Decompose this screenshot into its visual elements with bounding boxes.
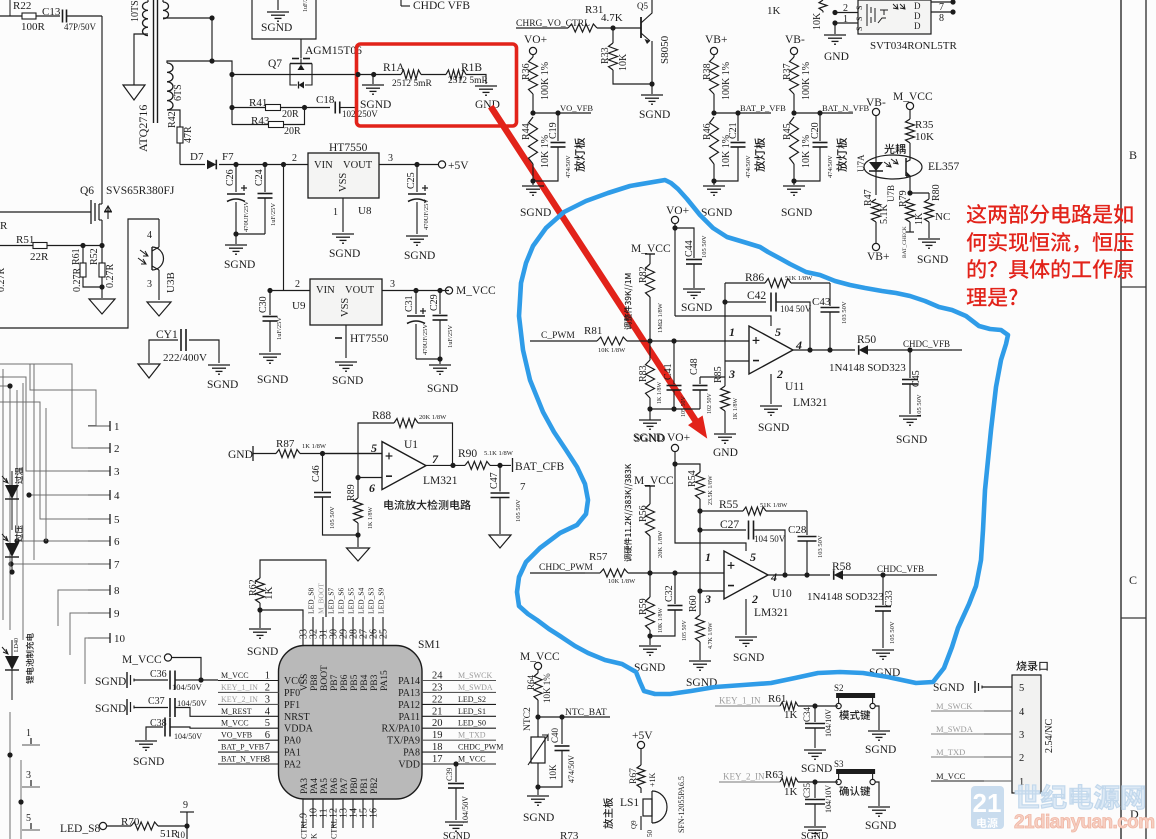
- svg-text:C41: C41: [663, 363, 674, 380]
- svg-text:C27: C27: [720, 519, 739, 531]
- svg-text:BAT_P_VFB: BAT_P_VFB: [740, 103, 786, 113]
- svg-text:7: 7: [432, 452, 439, 466]
- transformer T1 ATQ2716: [153, 0, 155, 123]
- svg-text:5.1K 1/8W: 5.1K 1/8W: [484, 450, 514, 457]
- svg-text:C40: C40: [550, 727, 560, 743]
- svg-text:100R: 100R: [21, 21, 46, 33]
- label guang ou: [884, 144, 894, 154]
- svg-text:6: 6: [369, 481, 375, 495]
- svg-text:6: 6: [265, 730, 270, 741]
- capacitor C40: [561, 717, 563, 744]
- svg-text:S: S: [855, 17, 864, 21]
- svg-text:LED_S9: LED_S9: [377, 588, 386, 615]
- svg-text:HT7550: HT7550: [329, 142, 368, 154]
- svg-text:10K 1/8W: 10K 1/8W: [598, 347, 626, 354]
- svg-text:SVT034RONL5TR: SVT034RONL5TR: [870, 40, 957, 52]
- svg-text:SGND: SGND: [639, 109, 670, 121]
- feedback R88 20K: [358, 423, 394, 478]
- resistor R67 1K: [640, 749, 642, 765]
- svg-text:U10: U10: [772, 588, 792, 600]
- svg-text:3: 3: [704, 592, 711, 606]
- node R41: [231, 75, 233, 125]
- svg-text:BAT_CHECK: BAT_CHECK: [902, 226, 908, 258]
- resistor R44 10K: [529, 117, 538, 164]
- svg-text:VDD: VDD: [398, 760, 420, 771]
- output wire U11: [793, 349, 855, 351]
- svg-text:S: S: [855, 27, 864, 31]
- resistor R36 100K: [532, 55, 534, 57]
- svg-text:105 50V: 105 50V: [329, 506, 336, 529]
- svg-text:PF0: PF0: [284, 688, 300, 699]
- svg-text:K: K: [310, 833, 319, 839]
- svg-text:NTC2: NTC2: [523, 707, 533, 731]
- svg-text:C42: C42: [747, 290, 766, 302]
- capacitor C29: [439, 291, 441, 315]
- mcu bottom pins: [302, 799, 304, 828]
- svg-text:PA1: PA1: [284, 748, 301, 759]
- svg-text:R57: R57: [589, 551, 608, 563]
- svg-text:U1: U1: [404, 439, 418, 451]
- svg-text:KEY_2_IN: KEY_2_IN: [221, 695, 258, 704]
- svg-text:105 50V: 105 50V: [682, 620, 688, 642]
- svg-text:2512 5mR: 2512 5mR: [448, 76, 489, 86]
- svg-text:CHDC VFB: CHDC VFB: [413, 0, 470, 12]
- svg-text:BAT_N_VFB: BAT_N_VFB: [221, 755, 265, 764]
- resistor R80 NC: [928, 193, 930, 199]
- svg-text:5: 5: [265, 718, 270, 729]
- svg-text:2: 2: [114, 443, 120, 455]
- capacitor C47: [499, 465, 501, 491]
- svg-text:SGND: SGND: [865, 744, 896, 756]
- svg-text:470UF/25V: 470UF/25V: [243, 201, 250, 232]
- wire VO+ U10: [675, 452, 746, 551]
- svg-text:R56: R56: [638, 505, 649, 522]
- svg-text:16: 16: [369, 808, 380, 818]
- resistor R38 100K: [713, 55, 715, 57]
- wire R62 to VSS pin: [260, 610, 303, 617]
- svg-text:105 50V: 105 50V: [515, 499, 522, 522]
- svg-text:47R: 47R: [183, 126, 194, 143]
- svg-text:23.5K 1/8W: 23.5K 1/8W: [708, 475, 714, 505]
- svg-text:U9: U9: [292, 300, 306, 312]
- svg-text:51K 1/8W: 51K 1/8W: [760, 502, 788, 509]
- winding 6TS: [167, 63, 173, 110]
- svg-text:R35: R35: [915, 119, 934, 131]
- svg-text:CY1: CY1: [156, 329, 178, 341]
- svg-text:LED_S8: LED_S8: [307, 588, 316, 615]
- svg-text:4: 4: [1019, 707, 1025, 718]
- svg-text:SGND: SGND: [360, 99, 391, 111]
- svg-text:RX/PA10: RX/PA10: [381, 724, 420, 735]
- svg-text:1K: 1K: [784, 709, 798, 721]
- capacitor C42: [725, 301, 766, 303]
- svg-text:VB-: VB-: [866, 97, 886, 109]
- svg-text:R60: R60: [688, 595, 699, 612]
- svg-text:VCC: VCC: [284, 676, 305, 687]
- svg-text:M_TXD: M_TXD: [936, 747, 965, 757]
- svg-text:LED_S4: LED_S4: [357, 588, 366, 615]
- svg-text:LM321: LM321: [793, 397, 828, 409]
- capacitor C48: [699, 377, 701, 384]
- mcu top pins: [302, 617, 304, 646]
- mcu SM1: [279, 646, 423, 800]
- svg-text:PB2: PB2: [370, 777, 380, 794]
- capacitor C19: [557, 113, 559, 141]
- terminal VB+ opto: [872, 243, 879, 250]
- svg-text:4: 4: [114, 490, 120, 502]
- pin2 ground U10: [745, 599, 747, 635]
- capacitor C34: [814, 706, 816, 722]
- capacitor C31: [415, 291, 417, 315]
- svg-text:BAT_N_VFB: BAT_N_VFB: [822, 103, 870, 113]
- resistor R59 10K: [649, 573, 651, 597]
- svg-text:105 50V: 105 50V: [889, 621, 896, 644]
- svg-text:20: 20: [432, 718, 443, 729]
- svg-text:LM321: LM321: [754, 607, 789, 619]
- svg-text:5.1K: 5.1K: [879, 204, 890, 225]
- svg-text:C36: C36: [150, 669, 167, 680]
- wire drain bus: [101, 16, 103, 200]
- svg-text:KEY_2_IN: KEY_2_IN: [723, 772, 765, 782]
- svg-text:D: D: [914, 1, 921, 11]
- svg-text:C21: C21: [728, 122, 739, 139]
- svg-text:VIN: VIN: [316, 285, 335, 296]
- svg-text:C25: C25: [406, 172, 417, 189]
- svg-text:R87: R87: [276, 438, 295, 450]
- svg-text:CHDC_VFB: CHDC_VFB: [903, 339, 950, 349]
- svg-text:SGND: SGND: [404, 250, 435, 262]
- label fang deng ban C20: [836, 161, 847, 172]
- svg-text:C26: C26: [225, 169, 236, 186]
- svg-text:SGND: SGND: [95, 703, 126, 715]
- net BAT_N_VFB: [794, 112, 853, 114]
- svg-text:20K 1/8W: 20K 1/8W: [419, 414, 447, 421]
- svg-text:B: B: [1129, 148, 1137, 162]
- svg-text:PA3: PA3: [300, 778, 310, 794]
- svg-text:M_VCC: M_VCC: [634, 475, 674, 487]
- svg-text:SGND: SGND: [781, 207, 812, 219]
- svg-text:3: 3: [114, 466, 120, 478]
- svg-text:104/10V: 104/10V: [824, 785, 833, 813]
- svg-text:17: 17: [432, 754, 443, 765]
- svg-text:R54: R54: [687, 470, 698, 487]
- svg-text:SGND: SGND: [733, 652, 764, 664]
- pins 2 1 SVT034: [835, 12, 858, 14]
- svg-text:VSS: VSS: [340, 298, 351, 317]
- ground R44: [522, 185, 544, 187]
- resistor R64 10K 1%: [537, 670, 539, 673]
- svg-text:R85: R85: [713, 366, 724, 383]
- svg-text:5: 5: [26, 813, 31, 824]
- capacitor C21: [737, 113, 739, 141]
- svg-text:3: 3: [26, 770, 31, 781]
- wire node: [211, 18, 213, 61]
- svg-text:10: 10: [176, 830, 186, 839]
- svg-text:SGND: SGND: [427, 383, 458, 395]
- svg-text:104 50V: 104 50V: [780, 304, 812, 314]
- svg-text:20R: 20R: [284, 126, 301, 137]
- svg-text:SGND: SGND: [681, 302, 712, 314]
- svg-text:R46: R46: [702, 123, 713, 140]
- svg-text:VO_VFB: VO_VFB: [221, 731, 252, 740]
- svg-text:M_VCC: M_VCC: [520, 651, 560, 663]
- ground GND SVT034: [834, 23, 836, 34]
- svg-text:LD40: LD40: [14, 638, 20, 652]
- svg-text:M_VCC: M_VCC: [221, 719, 249, 728]
- svg-text:KEY_1_IN: KEY_1_IN: [719, 696, 761, 706]
- svg-text:R79: R79: [898, 190, 909, 207]
- svg-text:4.7K: 4.7K: [601, 12, 623, 24]
- ground R45: [783, 185, 805, 187]
- svg-text:M_SWCK: M_SWCK: [936, 701, 973, 711]
- svg-text:R38: R38: [702, 63, 713, 80]
- svg-text:C44: C44: [684, 240, 695, 257]
- svg-text:SGND: SGND: [443, 831, 470, 839]
- svg-text:GND: GND: [824, 51, 849, 63]
- resistor R55 51K: [700, 510, 743, 512]
- svg-text:2: 2: [1019, 753, 1024, 764]
- capacitor C41: [673, 341, 675, 384]
- svg-text:22: 22: [432, 694, 443, 705]
- svg-text:S8050: S8050: [659, 35, 671, 64]
- connector shao lu kou: [1016, 661, 1026, 671]
- SGND block top: [252, 0, 316, 39]
- svg-text:R86: R86: [745, 272, 764, 284]
- svg-text:3: 3: [388, 153, 393, 164]
- svg-text:7: 7: [114, 559, 120, 571]
- capacitor C32: [674, 573, 676, 604]
- ic SVT034RONL5TR: [858, 0, 931, 34]
- svg-text:VB+: VB+: [867, 251, 889, 263]
- svg-text:C43: C43: [812, 296, 831, 308]
- svg-text:PB8: PB8: [310, 674, 320, 691]
- svg-text:10K 1/8W: 10K 1/8W: [658, 608, 664, 634]
- svg-text:SVS65R380FJ: SVS65R380FJ: [106, 185, 175, 197]
- svg-text:KEY_1_IN: KEY_1_IN: [221, 683, 258, 692]
- svg-text:M_SWDA: M_SWDA: [458, 683, 493, 692]
- resistor R22: [9, 0, 11, 16]
- svg-text:SGND: SGND: [95, 676, 126, 688]
- capacitor C46: [322, 454, 324, 492]
- svg-text:D: D: [914, 21, 921, 31]
- resistor R85 1K: [724, 361, 726, 386]
- svg-text:R83: R83: [638, 365, 649, 382]
- svg-text:R52: R52: [89, 248, 100, 265]
- svg-text:LED_S0: LED_S0: [458, 719, 486, 728]
- capacitor C20: [819, 113, 821, 141]
- label circuit description: [384, 500, 393, 510]
- svg-text:9: 9: [183, 800, 188, 811]
- svg-text:8: 8: [114, 585, 120, 597]
- svg-text:C34: C34: [802, 706, 812, 722]
- wire +5V input rail: [219, 164, 308, 166]
- svg-text:3: 3: [390, 279, 395, 290]
- winding upper right: [163, 2, 169, 19]
- svg-text:M_VCC: M_VCC: [893, 91, 933, 103]
- svg-text:R: R: [0, 220, 8, 232]
- ground NTC2: [527, 795, 549, 797]
- svg-text:PA4: PA4: [310, 778, 320, 794]
- left connector pins 1-10: [88, 425, 110, 427]
- svg-text:D: D: [914, 11, 921, 21]
- net NTC_BAT: [538, 716, 562, 718]
- svg-text:50: 50: [646, 830, 654, 838]
- svg-text:SM1: SM1: [418, 639, 441, 651]
- node R79 R80: [907, 190, 912, 195]
- svg-text:R43: R43: [251, 115, 270, 127]
- svg-text:R22: R22: [13, 0, 31, 12]
- wire U3B to left: [0, 219, 159, 328]
- svg-text:S3: S3: [834, 759, 844, 769]
- svg-text:1K 1/8W: 1K 1/8W: [733, 398, 739, 421]
- ground R59: [649, 636, 651, 645]
- svg-text:GND: GND: [713, 447, 738, 459]
- svg-text:M_SWDA: M_SWDA: [936, 724, 974, 734]
- svg-text:SGND: SGND: [207, 379, 238, 391]
- annotation red rectangle: [357, 44, 517, 126]
- svg-text:M_VCC: M_VCC: [631, 243, 671, 255]
- opamp U10 LM321: [724, 551, 768, 599]
- ground GND shunt: [475, 85, 497, 87]
- svg-text:R50: R50: [857, 334, 876, 346]
- svg-text:SGND: SGND: [133, 756, 164, 768]
- svg-text:100K 1%: 100K 1%: [801, 62, 812, 100]
- svg-text:U8: U8: [358, 205, 372, 217]
- resistor R32 10K: [819, 0, 827, 11]
- svg-text:1K: 1K: [767, 5, 781, 17]
- pin 1 U9: [345, 325, 347, 358]
- svg-text:6: 6: [114, 536, 120, 548]
- svg-text:470UF/25V: 470UF/25V: [423, 199, 430, 230]
- arrow-down symbol: [123, 85, 145, 100]
- svg-text:C48: C48: [689, 358, 700, 375]
- svg-text:SGND: SGND: [917, 254, 948, 266]
- regulator U8 HT7550: [308, 153, 379, 198]
- pin 2 U9: [270, 290, 310, 292]
- svg-text:CTRL: CTRL: [330, 818, 339, 839]
- svg-text:PB7: PB7: [330, 674, 340, 691]
- svg-text:LED_S7: LED_S7: [327, 588, 336, 615]
- svg-text:C45: C45: [911, 370, 922, 387]
- led over-volt: [5, 543, 19, 557]
- svg-text:U3B: U3B: [165, 272, 177, 293]
- svg-text:1MΩ 1/8W: 1MΩ 1/8W: [657, 302, 664, 333]
- svg-text:C: C: [1129, 573, 1137, 587]
- svg-text:4: 4: [265, 706, 271, 717]
- svg-text:474/50V: 474/50V: [567, 755, 576, 783]
- svg-text:3: 3: [147, 279, 152, 290]
- svg-text:24: 24: [432, 671, 443, 682]
- svg-text:M_SWCK: M_SWCK: [458, 671, 492, 680]
- svg-text:PA7: PA7: [340, 778, 350, 794]
- opamp U1 LM321: [382, 442, 426, 490]
- svg-text:3: 3: [1019, 730, 1024, 741]
- svg-text:BAT_P_VFB: BAT_P_VFB: [221, 743, 264, 752]
- output R90 5.1K: [426, 464, 465, 466]
- svg-text:SFN-12055PA6.5: SFN-12055PA6.5: [677, 776, 686, 833]
- svg-text:SGND: SGND: [933, 682, 964, 694]
- svg-text:CHDC_PWM: CHDC_PWM: [539, 563, 593, 573]
- svg-text:M_VCC: M_VCC: [122, 654, 162, 666]
- svg-text:R88: R88: [372, 410, 391, 422]
- svg-text:M_REST: M_REST: [221, 707, 252, 716]
- led over-temp: [5, 485, 19, 499]
- svg-text:SGND: SGND: [896, 434, 927, 446]
- pin 1 U8 ground: [342, 198, 344, 232]
- net BAT_P_VFB: [714, 112, 771, 114]
- svg-text:10: 10: [114, 633, 126, 645]
- svg-text:C18: C18: [316, 94, 335, 106]
- svg-text:C19: C19: [548, 122, 559, 139]
- ground Q5: [651, 84, 653, 94]
- svg-text:1K 1/8W: 1K 1/8W: [368, 507, 374, 530]
- resistor R46 10K: [710, 117, 719, 164]
- svg-text:VO+: VO+: [666, 205, 689, 217]
- svg-text:VB+: VB+: [705, 34, 727, 46]
- svg-text:25: 25: [379, 629, 390, 639]
- svg-text:1N4148 SOD323: 1N4148 SOD323: [829, 362, 906, 374]
- svg-text:C30: C30: [258, 296, 269, 313]
- svg-text:CHDC_PWM: CHDC_PWM: [458, 743, 503, 752]
- svg-text:1: 1: [265, 671, 270, 682]
- svg-text:BAT_CFB: BAT_CFB: [515, 461, 565, 473]
- svg-text:21: 21: [432, 706, 443, 717]
- svg-text:1K: 1K: [263, 587, 275, 601]
- svg-text:5: 5: [750, 550, 756, 564]
- svg-text:VOUT: VOUT: [345, 285, 375, 296]
- svg-text:1uF/25V: 1uF/25V: [447, 325, 454, 348]
- plus input wire U1: [323, 453, 383, 455]
- resistor R35 10K: [909, 110, 911, 119]
- resistor R60 4.7K: [699, 591, 701, 615]
- svg-text:+5V: +5V: [632, 730, 653, 742]
- resistor R82 1M: [649, 254, 651, 264]
- minus input U1: [358, 477, 382, 479]
- svg-text:Q9: Q9: [630, 820, 638, 829]
- capacitor C39: [453, 761, 458, 766]
- svg-text:SGND: SGND: [801, 831, 828, 839]
- svg-text:CTRL: CTRL: [300, 818, 309, 839]
- pin2 ground U11: [770, 374, 772, 404]
- resistor R86 51K: [725, 282, 765, 284]
- svg-text:R61: R61: [768, 693, 786, 705]
- svg-text:2: 2: [295, 279, 300, 290]
- svg-text:102 50V: 102 50V: [707, 393, 713, 415]
- svg-text:R81: R81: [584, 325, 602, 337]
- svg-text:SGND: SGND: [247, 646, 278, 658]
- svg-text:C32: C32: [664, 585, 675, 602]
- resistor R37 100K: [793, 55, 795, 57]
- svg-text:51K 1/8W: 51K 1/8W: [785, 275, 813, 282]
- svg-text:PA2: PA2: [284, 760, 301, 771]
- svg-text:0.27R: 0.27R: [105, 264, 116, 289]
- svg-text:U7A: U7A: [856, 154, 866, 172]
- svg-text:SGND: SGND: [865, 820, 896, 832]
- svg-text:LED_S8: LED_S8: [60, 823, 101, 835]
- svg-text:7: 7: [520, 481, 526, 493]
- svg-text:C31: C31: [404, 295, 415, 312]
- svg-text:VO+: VO+: [667, 432, 690, 444]
- svg-text:PB6: PB6: [340, 674, 350, 691]
- svg-text:105 50V: 105 50V: [701, 235, 708, 258]
- svg-text:100K 1%: 100K 1%: [721, 62, 732, 100]
- ground R80: [918, 238, 940, 240]
- svg-text:2.54/NC: 2.54/NC: [1044, 719, 1055, 754]
- svg-text:9: 9: [114, 608, 120, 620]
- feedback node U11: [724, 283, 726, 361]
- svg-text:PB0: PB0: [350, 777, 360, 794]
- svg-text:2: 2: [751, 592, 758, 606]
